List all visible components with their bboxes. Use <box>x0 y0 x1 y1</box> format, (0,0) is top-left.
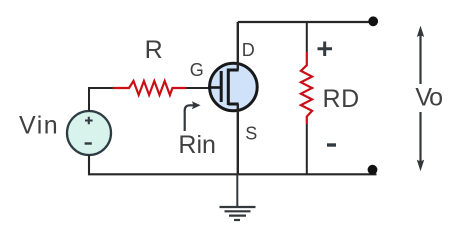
minus sign inside Vin <box>85 142 92 144</box>
svg-text:R: R <box>145 36 163 64</box>
Vo arrow lower segment <box>419 112 421 163</box>
voltage source Vin <box>67 111 111 155</box>
plus sign inside Vin <box>85 117 93 125</box>
ground stem <box>236 174 238 207</box>
output node dot bottom <box>368 165 378 175</box>
wire Vin top to gate corner <box>89 88 113 111</box>
output node dot top <box>368 16 378 26</box>
resistor RD <box>301 52 312 124</box>
mosfet bottom stub <box>228 103 238 106</box>
wire top to RD <box>306 22 308 52</box>
top wire to output <box>238 21 377 23</box>
Vo arrowhead top <box>417 26 424 37</box>
mosfet channel bar <box>227 69 230 106</box>
ground bar 2 <box>225 210 251 212</box>
ground bar 1 <box>220 206 256 208</box>
svg-text:RD: RD <box>323 85 360 113</box>
svg-text:S: S <box>245 123 257 143</box>
minus sign at RD bottom <box>327 143 336 146</box>
svg-text:Rin: Rin <box>178 131 216 159</box>
mosfet top stub <box>228 69 238 72</box>
wire resistor to gate <box>186 87 210 89</box>
ground bar 3 <box>229 215 246 217</box>
svg-text:D: D <box>242 40 255 60</box>
Rin arrowhead <box>192 101 201 109</box>
Vo arrow upper segment <box>419 34 421 84</box>
source lead wire <box>237 104 239 174</box>
Rin arrow <box>185 105 193 131</box>
bottom wire <box>89 155 377 174</box>
svg-text:Vo: Vo <box>415 83 442 111</box>
ground bar 4 <box>234 219 240 221</box>
mosfet gate bar <box>220 71 223 102</box>
svg-text:G: G <box>190 60 204 80</box>
mosfet Q1 body <box>210 63 258 111</box>
drain lead wire <box>237 22 239 70</box>
mosfet gate lead <box>208 86 221 89</box>
svg-text:Vin: Vin <box>19 112 59 140</box>
plus sign at RD top <box>318 42 333 57</box>
resistor R <box>113 81 186 95</box>
wire RD to bottom <box>306 124 308 174</box>
Vo arrowhead bottom <box>417 160 424 171</box>
